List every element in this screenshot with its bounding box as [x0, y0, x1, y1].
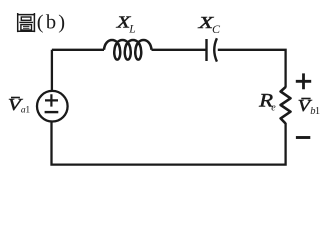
svg-text:(b): (b)	[37, 12, 68, 34]
svg-text:1: 1	[315, 106, 320, 117]
svg-text:L: L	[128, 24, 135, 36]
svg-text:e: e	[271, 103, 276, 114]
svg-text:1: 1	[25, 106, 30, 116]
svg-text:C: C	[212, 22, 221, 36]
